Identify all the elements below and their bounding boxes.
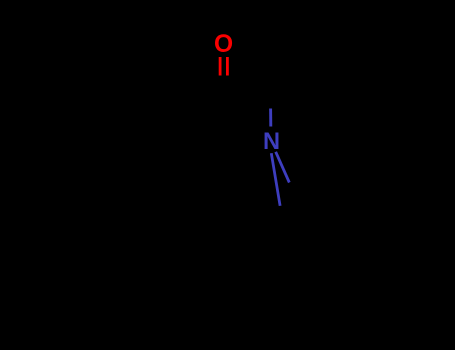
double bond C=O (left line) xyxy=(219,57,222,76)
svg-text:O: O xyxy=(214,31,233,58)
bond C-N upper half (blue half-bond above N) xyxy=(269,109,272,127)
svg-text:N: N xyxy=(263,129,280,155)
bond N-C lower right half-bond xyxy=(276,152,290,183)
bond N-C lower steep half-bond xyxy=(271,153,280,206)
double bond C=O (right line) xyxy=(226,57,229,76)
